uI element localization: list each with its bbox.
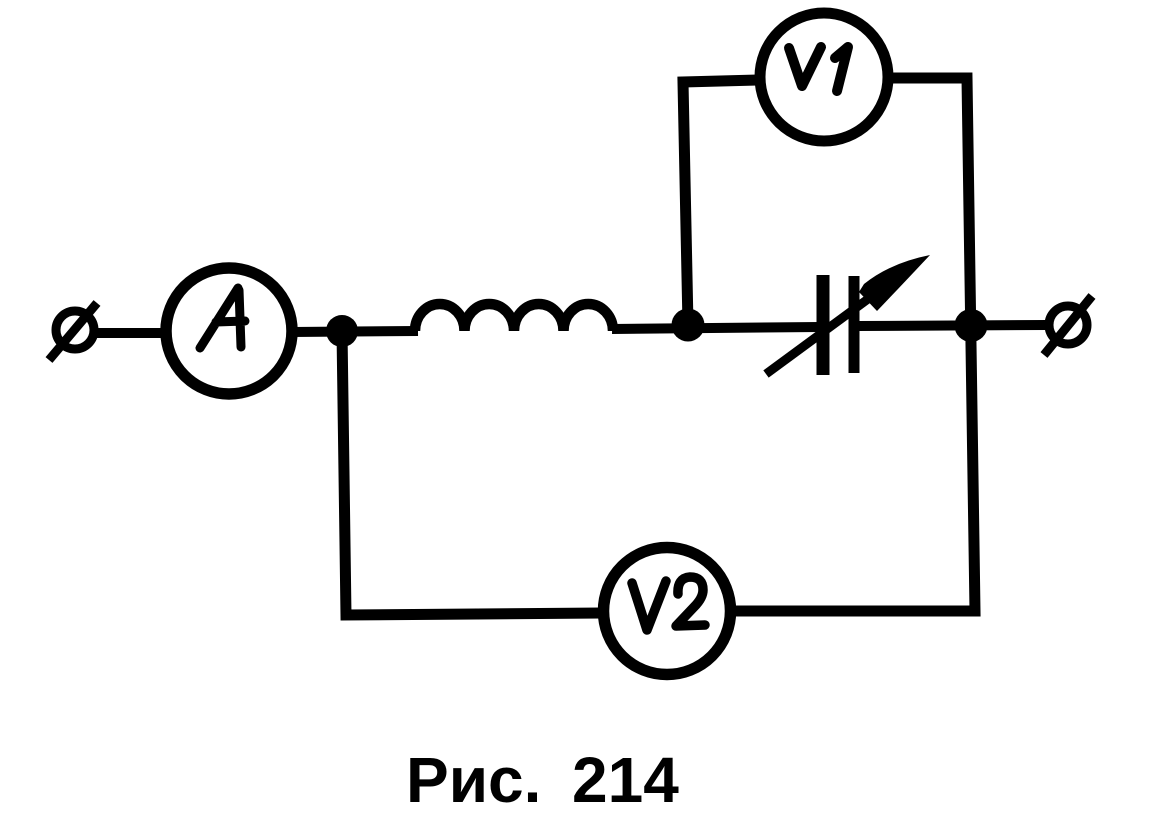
voltmeter V1 xyxy=(760,13,888,141)
voltmeter V2 xyxy=(604,548,731,675)
terminal right xyxy=(1044,296,1092,355)
node after ammeter xyxy=(326,315,358,347)
wire xyxy=(95,328,167,338)
wire xyxy=(612,327,820,329)
node right xyxy=(955,309,988,342)
wire xyxy=(732,78,975,611)
inductor L xyxy=(415,304,613,331)
capacitor C variable xyxy=(766,255,930,375)
ammeter A xyxy=(166,268,292,394)
wire xyxy=(858,325,1047,326)
terminal left xyxy=(49,303,97,360)
wire xyxy=(683,80,758,325)
node after inductor xyxy=(672,309,705,342)
svg-text:Рис.214: Рис.214 xyxy=(406,744,679,816)
wire xyxy=(342,331,602,615)
wire xyxy=(292,331,418,332)
